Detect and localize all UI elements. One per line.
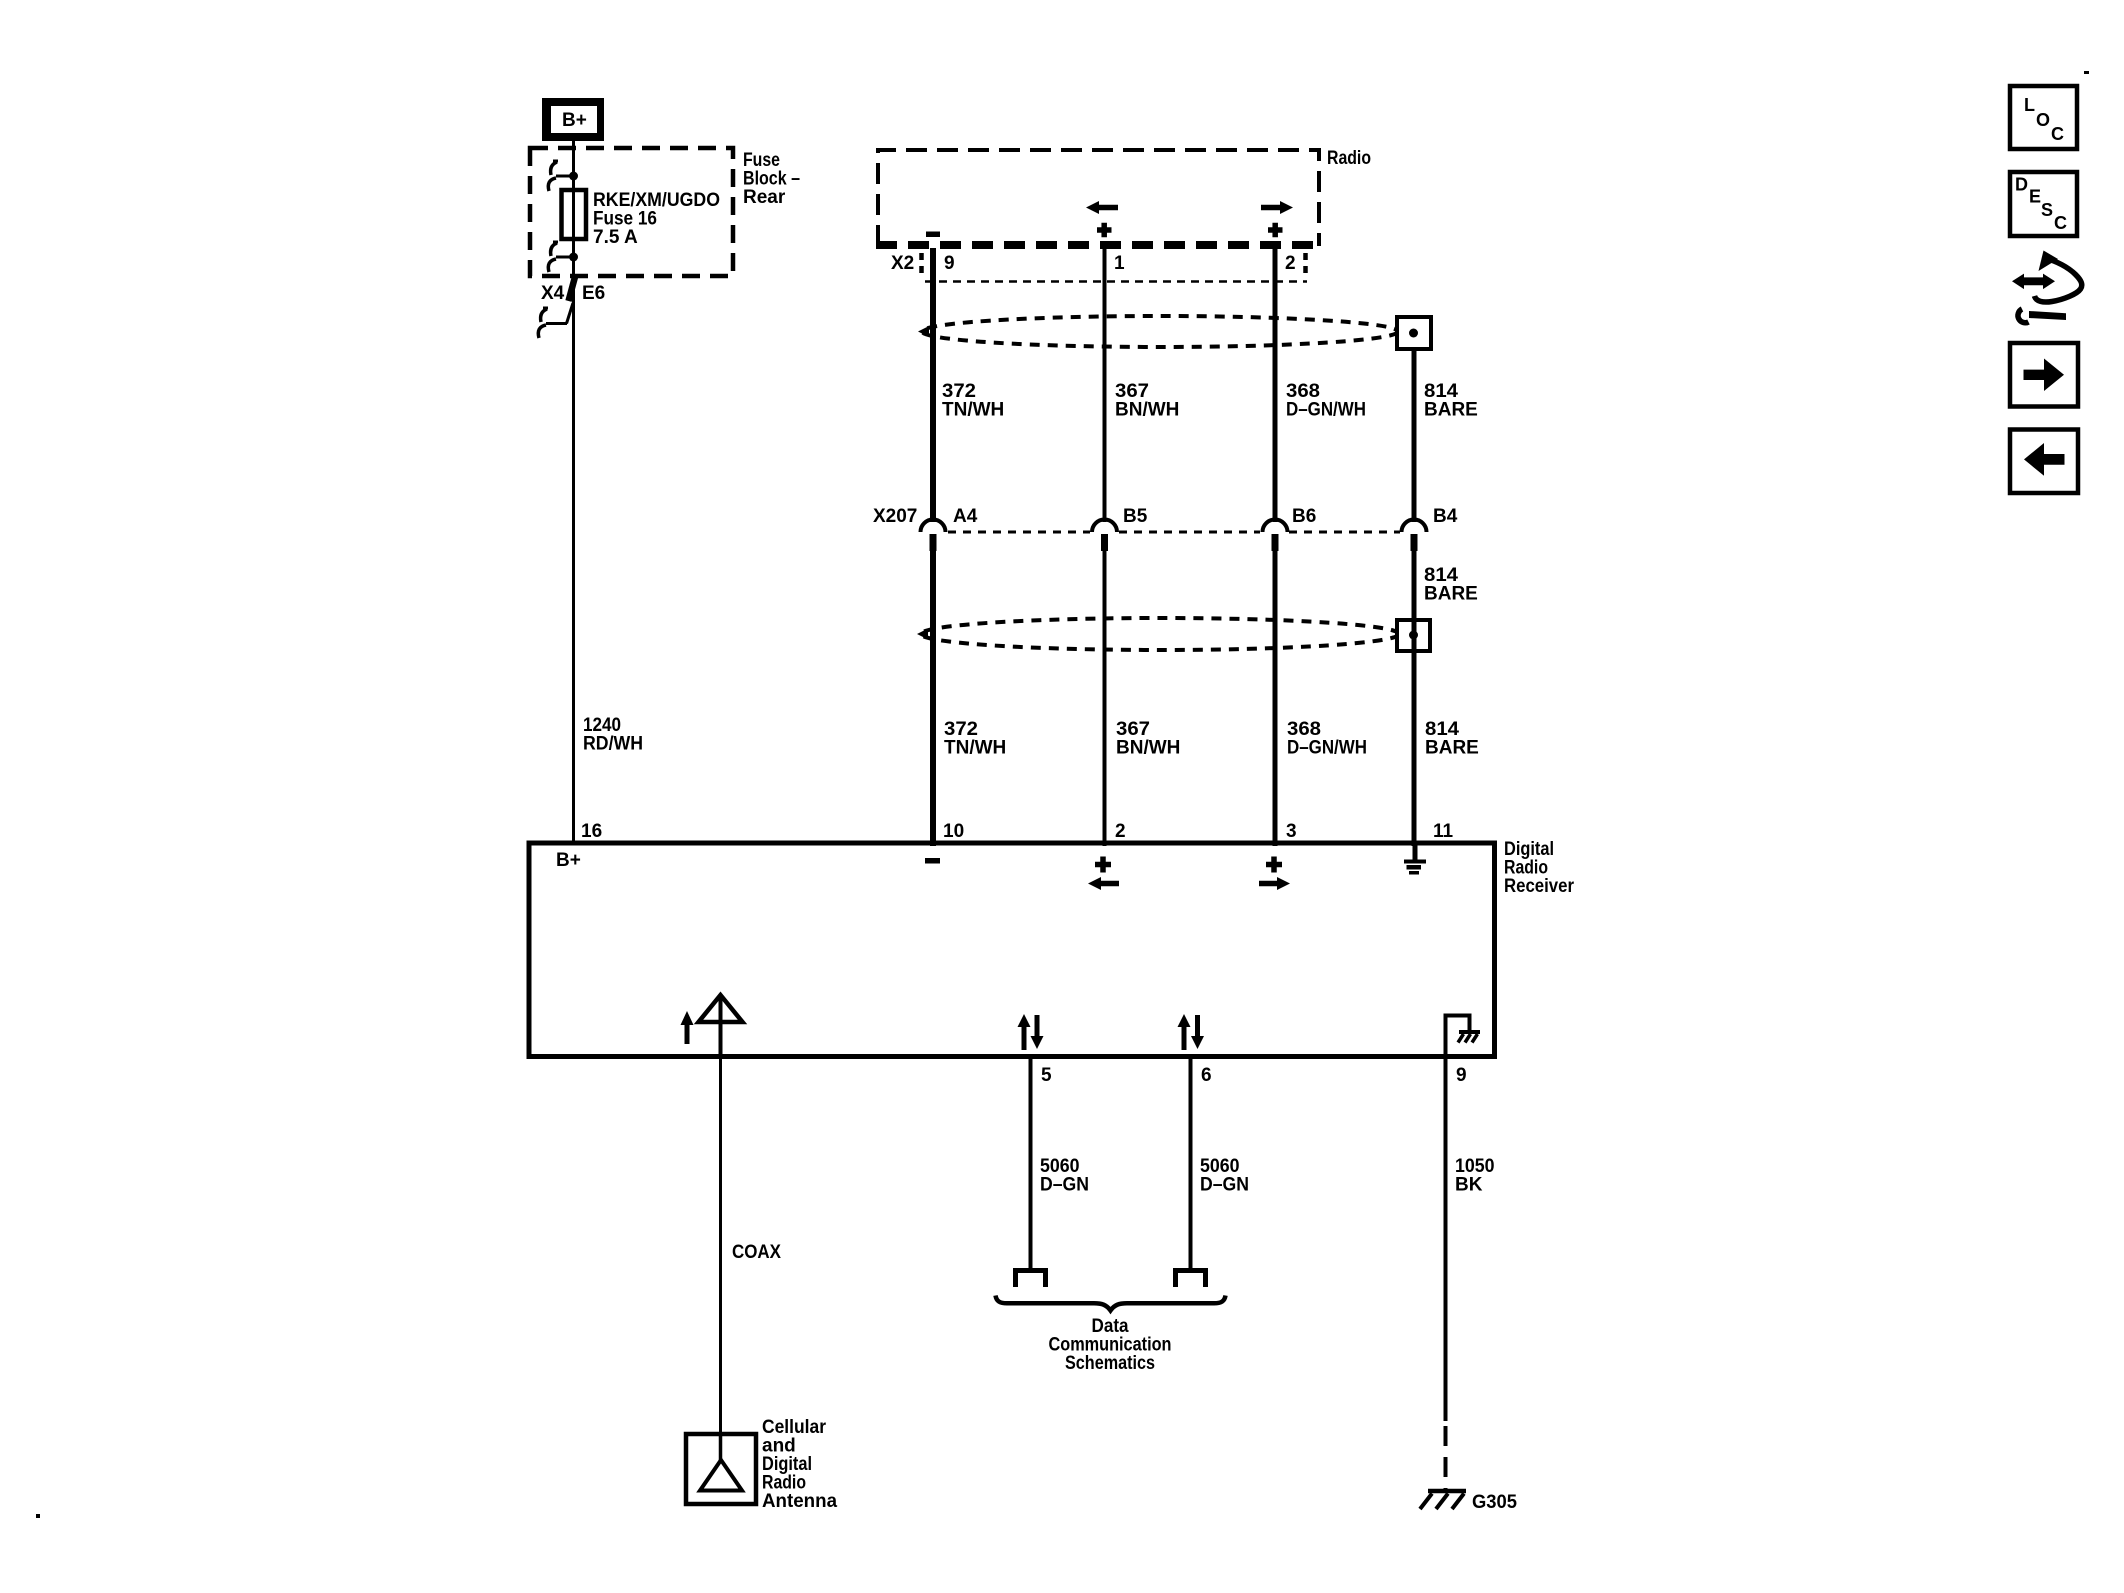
connector X2 left bracket <box>919 253 924 276</box>
svg-text:X2: X2 <box>891 253 914 274</box>
svg-text:TN/WH: TN/WH <box>942 400 1004 421</box>
wire label 5060 D-GN pin5 <box>1040 1156 1089 1196</box>
digital radio receiver box <box>529 843 1495 1057</box>
serial data arrows pin6 <box>1178 1014 1205 1050</box>
brace data communication <box>996 1296 1226 1311</box>
svg-text:D–GN/WH: D–GN/WH <box>1287 738 1367 759</box>
receiver right-channel arrow <box>1259 877 1290 890</box>
svg-text:Rear: Rear <box>743 187 786 208</box>
radio dashed box <box>876 150 1321 246</box>
svg-text:6: 6 <box>1201 1065 1212 1086</box>
terminal clip upper <box>548 161 573 191</box>
wire label 814 BARE row1 <box>1424 381 1478 421</box>
svg-text:X4: X4 <box>541 283 565 304</box>
wire 372 TN/WH vertical <box>930 248 936 522</box>
digital radio receiver label <box>1504 839 1575 897</box>
wire label 368 D-GN/WH row1 <box>1286 381 1366 421</box>
svg-text:10: 10 <box>943 821 964 842</box>
svg-text:Schematics: Schematics <box>1065 1353 1155 1374</box>
speck bottom left <box>36 1514 40 1518</box>
connector X2 right bracket <box>1303 253 1308 276</box>
icon DESC box <box>2010 172 2077 236</box>
svg-text:BK: BK <box>1455 1175 1483 1196</box>
svg-text:COAX: COAX <box>732 1242 781 1263</box>
serial data arrows pin5 <box>1018 1014 1044 1050</box>
connector X207 terminal arc B6 <box>1263 520 1288 533</box>
connector X207 dashed line <box>948 531 1400 534</box>
fuse block rear dashed box <box>530 148 733 276</box>
receiver antenna symbol <box>699 995 743 1022</box>
connector X4/E6 slash <box>569 275 576 301</box>
svg-text:Receiver: Receiver <box>1504 876 1575 897</box>
cellular antenna label <box>762 1417 837 1512</box>
svg-text:3: 3 <box>1286 821 1297 842</box>
wire 1240 RD/WH label <box>583 715 643 755</box>
wire label 367 BN/WH row2 <box>1116 719 1180 759</box>
svg-text:9: 9 <box>1456 1065 1467 1086</box>
wire COAX <box>719 1059 722 1434</box>
radio audio plus sign right <box>1268 223 1283 238</box>
connector X207 pin B5 <box>1101 534 1108 551</box>
receiver antenna up arrow <box>681 1011 694 1044</box>
cellular antenna symbol <box>700 1460 742 1491</box>
shield termination square lower <box>1397 620 1430 651</box>
wire 1050 BK dashed tail <box>1444 1426 1448 1490</box>
connector X207 pin A4 <box>930 534 937 551</box>
svg-text:D–GN/WH: D–GN/WH <box>1286 400 1366 421</box>
antenna lead inside <box>719 1434 723 1463</box>
connector X2 dashed line <box>925 280 1307 283</box>
antenna lead in box <box>719 997 723 1059</box>
icon LOC box <box>2010 86 2077 149</box>
radio audio minus sign <box>926 232 940 238</box>
shield dot lower <box>1409 631 1418 640</box>
icon next arrow box <box>2010 343 2078 407</box>
wire terminator pin5 <box>1016 1271 1046 1288</box>
shield ellipse upper <box>922 316 1398 347</box>
svg-text:S: S <box>2041 200 2053 220</box>
svg-text:O: O <box>2036 110 2050 130</box>
terminal clip lower <box>548 242 573 272</box>
fuse block label <box>743 150 800 208</box>
power symbol B+ box <box>542 98 604 141</box>
wire label 372 TN/WH row2 <box>944 719 1006 759</box>
svg-text:2: 2 <box>1285 253 1296 274</box>
svg-text:L: L <box>2024 95 2035 115</box>
shield termination square upper <box>1397 317 1431 349</box>
wire 367 BN/WH vertical <box>1103 246 1107 522</box>
svg-text:5: 5 <box>1041 1065 1052 1086</box>
svg-text:16: 16 <box>581 821 602 842</box>
connector X207 pin B4 <box>1411 534 1418 551</box>
svg-text:B4: B4 <box>1433 506 1458 527</box>
wire label 368 D-GN/WH row2 <box>1287 719 1367 759</box>
svg-text:BN/WH: BN/WH <box>1115 400 1179 421</box>
svg-text:Antenna: Antenna <box>762 1491 837 1512</box>
fuse F16 <box>562 190 587 239</box>
receiver left-channel arrow <box>1088 877 1119 890</box>
shield arrowhead upper <box>918 326 929 337</box>
radio audio plus sign left <box>1097 223 1112 238</box>
terminal clip below X4 <box>538 303 573 338</box>
svg-text:TN/WH: TN/WH <box>944 738 1006 759</box>
svg-text:2: 2 <box>1115 821 1126 842</box>
svg-text:X207: X207 <box>873 506 917 527</box>
cellular antenna box <box>686 1434 756 1504</box>
connector X207 terminal arc B5 <box>1092 520 1117 533</box>
svg-text:BARE: BARE <box>1424 584 1478 605</box>
icon schematic navigation <box>2012 251 2082 323</box>
receiver chassis ground pin 9 <box>1446 1016 1481 1056</box>
wire B+ feed vertical <box>572 139 575 845</box>
svg-text:E: E <box>2029 187 2041 207</box>
svg-text:7.5 A: 7.5 A <box>593 227 638 248</box>
speck top right <box>2084 71 2089 74</box>
wire label 1050 BK <box>1455 1156 1495 1196</box>
svg-text:B+: B+ <box>556 850 581 871</box>
data communication schematics label <box>1049 1316 1172 1374</box>
svg-text:RD/WH: RD/WH <box>583 734 643 755</box>
wire 1050 BK <box>1444 1059 1448 1421</box>
svg-text:C: C <box>2054 213 2067 233</box>
receiver plus pin name right <box>1266 857 1282 873</box>
wire 368 D-GN/WH vertical <box>1273 246 1278 522</box>
radio right-channel arrow <box>1261 201 1293 214</box>
radio left-channel arrow <box>1086 201 1118 214</box>
wire label 814 BARE mid <box>1424 565 1478 605</box>
shield ellipse lower <box>921 618 1399 650</box>
ground G305 <box>1420 1491 1466 1509</box>
svg-text:9: 9 <box>944 253 955 274</box>
shield arrowhead lower <box>917 629 928 640</box>
svg-text:C: C <box>2051 124 2064 144</box>
svg-text:1: 1 <box>1114 253 1125 274</box>
svg-text:D–GN: D–GN <box>1200 1175 1249 1196</box>
wire label 814 BARE row2 <box>1425 719 1479 759</box>
svg-text:BN/WH: BN/WH <box>1116 738 1180 759</box>
svg-text:BARE: BARE <box>1425 738 1479 759</box>
svg-text:B+: B+ <box>562 110 587 131</box>
receiver plus pin name left <box>1095 857 1111 873</box>
wire label 5060 D-GN pin6 <box>1200 1156 1249 1196</box>
svg-text:G305: G305 <box>1472 1492 1517 1513</box>
wire label 367 BN/WH row1 <box>1115 381 1179 421</box>
wire terminator pin6 <box>1176 1271 1206 1288</box>
wire 5060 D-GN pin5 <box>1029 1059 1033 1271</box>
svg-text:D–GN: D–GN <box>1040 1175 1089 1196</box>
svg-text:Radio: Radio <box>1327 148 1371 169</box>
svg-text:11: 11 <box>1433 821 1454 842</box>
svg-text:B6: B6 <box>1292 506 1316 527</box>
svg-text:B5: B5 <box>1123 506 1148 527</box>
connector X207 terminal arc A4 <box>921 520 946 533</box>
svg-text:E6: E6 <box>582 283 605 304</box>
wire 5060 D-GN pin6 <box>1189 1059 1193 1271</box>
shield dot upper <box>1409 329 1418 338</box>
receiver minus pin name <box>925 858 940 864</box>
wire 814 through square <box>1412 620 1417 651</box>
connector X207 pin B6 <box>1272 534 1279 551</box>
icon back arrow box <box>2010 430 2078 494</box>
fuse value label <box>593 190 720 248</box>
connector X207 terminal arc B4 <box>1402 520 1427 533</box>
svg-text:A4: A4 <box>953 506 978 527</box>
receiver earth ground pin 11 <box>1404 845 1426 875</box>
wire label 372 TN/WH row1 <box>942 381 1004 421</box>
svg-text:D: D <box>2015 175 2028 195</box>
junction dot lower <box>569 253 578 262</box>
wire 814 BARE vertical <box>1412 349 1417 522</box>
svg-text:BARE: BARE <box>1424 400 1478 421</box>
junction dot upper <box>569 172 578 181</box>
